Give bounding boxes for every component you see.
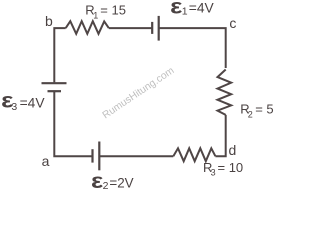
svg-text:2: 2	[103, 180, 109, 192]
resistor R2	[218, 70, 232, 115]
svg-text:= 5: = 5	[255, 102, 273, 117]
svg-text:c: c	[229, 15, 236, 31]
svg-text:d: d	[229, 142, 237, 158]
battery E3 short plate	[48, 90, 62, 92]
wire: b down left side to battery E3 top plate	[54, 28, 65, 82]
svg-text:=2V: =2V	[109, 176, 133, 191]
wire: R1 to battery E1 short plate	[109, 27, 152, 29]
svg-text:3: 3	[211, 168, 216, 178]
svg-text:=4V: =4V	[20, 96, 46, 111]
wire: E2 short plate to corner a and up to E3 short plate	[54, 91, 92, 156]
svg-text:2: 2	[248, 109, 253, 119]
battery E1 short plate	[151, 22, 153, 34]
svg-text:1: 1	[182, 6, 188, 18]
wire: R2 down to corner d then left to R3	[215, 115, 225, 156]
svg-text:1: 1	[93, 11, 98, 21]
battery E2 long plate	[98, 142, 100, 171]
battery E2 short plate	[91, 149, 93, 162]
svg-text:=4V: =4V	[189, 0, 215, 15]
battery E1 long plate	[158, 16, 160, 41]
svg-text:= 15: = 15	[100, 2, 126, 17]
svg-text:= 10: = 10	[218, 160, 244, 175]
svg-text:b: b	[45, 13, 53, 29]
wire: R3 to battery E2 long plate	[99, 155, 173, 157]
svg-text:3: 3	[11, 101, 17, 113]
svg-text:a: a	[42, 153, 50, 169]
resistor R1	[66, 21, 109, 34]
svg-text:ε: ε	[91, 169, 103, 193]
resistor R3	[173, 148, 215, 161]
wire: E1 long plate to corner c and down to R2	[159, 28, 226, 68]
svg-text:ε: ε	[170, 0, 182, 19]
svg-text:RumusHitung.com: RumusHitung.com	[101, 65, 177, 121]
battery E3 long plate	[42, 82, 67, 84]
